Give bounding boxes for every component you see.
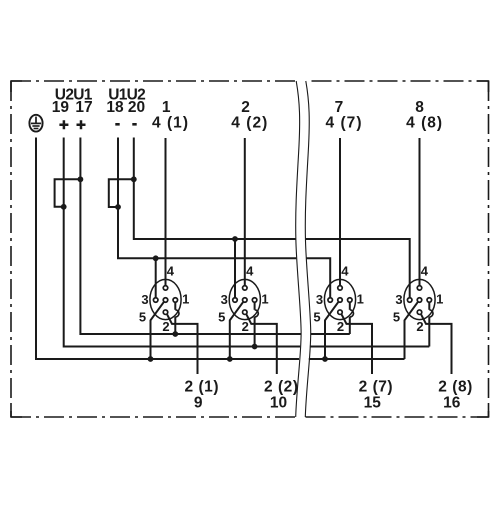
- junction X1 pin 1 on L+ bus A: [172, 331, 178, 337]
- bridge jog between terminals 17 and 19: [55, 179, 81, 207]
- minus sign terminal 20: [132, 123, 136, 126]
- svg-text:4 (8): 4 (8): [406, 114, 442, 131]
- X1 pin 4 circle: [163, 286, 168, 291]
- junction X1 pin 3 on M bus 2: [153, 255, 159, 261]
- svg-text:1: 1: [357, 291, 364, 306]
- X1 pin 2 circle: [163, 310, 168, 315]
- svg-text:4 (2): 4 (2): [231, 114, 267, 131]
- svg-text:20: 20: [128, 99, 145, 116]
- wire signal 4(7) down to X3 pin 4: [339, 138, 341, 288]
- X4 pin 3 circle: [407, 298, 412, 303]
- wire X1 pin 1 down to L+ bus A: [174, 317, 176, 334]
- svg-text:3: 3: [221, 292, 228, 307]
- X2 pin 2 circle: [243, 310, 248, 315]
- svg-text:3: 3: [141, 292, 148, 307]
- plus sign terminal 17: [77, 120, 86, 129]
- bridge jog between terminals 20 and 18: [109, 179, 134, 207]
- junction X2 pin 5 on PE bus: [227, 356, 233, 362]
- junction X2 pin 1 on L+ bus B: [252, 344, 258, 350]
- junction X3 pin 5 on PE bus: [322, 356, 328, 362]
- break line left (page interruption): [296, 81, 301, 417]
- svg-text:15: 15: [364, 395, 382, 412]
- svg-text:19: 19: [52, 99, 70, 116]
- wire PE: ground symbol down and right along PE bus to socket X4 pin 5: [36, 138, 299, 360]
- svg-text:16: 16: [443, 395, 461, 412]
- wire PE bus right of break, up to socket X4 pin 5 corner: [309, 358, 405, 360]
- wire L+ bus A right of break, to socket X3 pin 1: [311, 333, 350, 335]
- plus sign terminal 19: [59, 120, 68, 129]
- svg-text:2: 2: [162, 319, 169, 334]
- X2 pin 5 circle: [243, 298, 248, 303]
- frame: dash-dot border top-right segment: [312, 80, 489, 82]
- svg-text:5: 5: [218, 309, 225, 324]
- X2 pin 1 hop over outline: [255, 310, 259, 317]
- socket X3 outline: [324, 279, 355, 319]
- socket X2 outline: [229, 279, 260, 319]
- svg-text:2: 2: [337, 319, 344, 334]
- break line right (page interruption): [305, 81, 310, 417]
- svg-text:4: 4: [246, 264, 254, 279]
- svg-text:1: 1: [261, 291, 268, 306]
- X3 pin 1 circle: [348, 298, 353, 303]
- X1 pin 1 stub: [174, 302, 176, 310]
- X2 pin 1 stub: [254, 302, 256, 310]
- junction X2 pin 3 on M bus 1: [232, 236, 238, 242]
- X3 pin 2 circle: [338, 310, 343, 315]
- wire signal 4(1) down to X1 pin 4: [165, 138, 167, 288]
- X3 pin 1 hop over outline: [350, 310, 354, 317]
- wire terminal 18 (-) down and right along M bus 2: [118, 138, 296, 259]
- svg-text:2 (1): 2 (1): [185, 378, 219, 395]
- X1 pin 1 hop over outline: [175, 310, 179, 317]
- wire terminal 20 (-) down and right along M bus 1: [134, 138, 296, 240]
- svg-text:18: 18: [106, 99, 124, 116]
- svg-text:10: 10: [270, 395, 287, 412]
- wire X3 pin 1 down to L+ bus A end: [349, 317, 351, 334]
- junction X1 pin 5 on PE bus: [148, 356, 154, 362]
- junction terminal 17 / bridge: [78, 176, 84, 182]
- svg-text:2: 2: [416, 319, 423, 334]
- ground electrode symbol (PE): [29, 115, 42, 132]
- wire M bus 1 right of break, down to socket X4 pin 3: [306, 239, 410, 300]
- svg-text:5: 5: [313, 309, 320, 324]
- X1 pin 3 circle: [153, 298, 158, 303]
- junction terminal 19 / bridge: [61, 204, 67, 210]
- X4 pin 2 circle: [417, 310, 422, 315]
- svg-text:5: 5: [139, 309, 146, 324]
- X4 pin 1 hop over outline: [429, 310, 433, 317]
- wire terminal 17 (+) down and right along L+ bus A: [80, 138, 301, 335]
- wire M bus 2 right of break, down to socket X3 pin 3: [306, 258, 330, 300]
- junction terminal 18 / bridge: [115, 204, 121, 210]
- socket X4 outline: [404, 279, 435, 319]
- X4 pin 1 circle: [427, 298, 432, 303]
- frame: dash-dot border top-left segment: [11, 80, 296, 82]
- svg-text:3: 3: [395, 292, 402, 307]
- X1 pin 2 wire (diagonal, right, down): [167, 314, 197, 374]
- X2 pin 4 circle: [243, 286, 248, 291]
- X3 pin 1 stub: [349, 302, 351, 310]
- X2 pin 5 wire (diagonal to PE bus): [230, 302, 243, 359]
- svg-text:2 (2): 2 (2): [264, 378, 298, 395]
- wire signal 4(2) down to X2 pin 4: [244, 138, 246, 288]
- svg-text:4: 4: [421, 264, 429, 279]
- wire terminal 19 (+) down and right along L+ bus B: [64, 138, 301, 347]
- X2 pin 1 circle: [252, 298, 257, 303]
- svg-text:2: 2: [242, 319, 249, 334]
- X3 pin 3 circle: [328, 298, 333, 303]
- wire X2 pin 3 tap from M bus 1: [234, 239, 236, 300]
- frame: dash-dot border right edge: [488, 81, 490, 417]
- svg-text:4 (1): 4 (1): [152, 114, 188, 131]
- svg-text:2 (8): 2 (8): [438, 378, 472, 395]
- X2 pin 3 circle: [233, 298, 238, 303]
- X3 pin 5 circle: [338, 298, 343, 303]
- X4 pin 5 circle: [417, 298, 422, 303]
- wire X2 pin 1 down to L+ bus B: [254, 317, 256, 347]
- X1 pin 1 circle: [173, 298, 178, 303]
- svg-text:9: 9: [194, 395, 203, 412]
- frame: dash-dot border bottom-right segment: [306, 416, 489, 418]
- X1 pin 5 wire (diagonal to PE bus): [151, 302, 164, 359]
- minus sign terminal 18: [115, 123, 119, 126]
- X3 pin 5 wire (diagonal to PE bus): [325, 302, 338, 359]
- wire X4 pin 1 down to L+ bus B end: [428, 317, 430, 347]
- X3 pin 2 wire (diagonal, right, down): [342, 314, 372, 374]
- frame corner ticks: [11, 81, 489, 417]
- X1 pin 5 circle: [163, 298, 168, 303]
- X3 pin 4 circle: [338, 286, 343, 291]
- svg-text:4 (7): 4 (7): [326, 114, 362, 131]
- wire X1 pin 3 tap from M bus 2: [155, 258, 157, 300]
- svg-text:5: 5: [393, 309, 400, 324]
- X2 pin 2 wire (diagonal, right, down): [246, 314, 276, 374]
- wire signal 4(8) down to X4 pin 4: [419, 138, 421, 288]
- frame: dash-dot border bottom-left segment: [11, 416, 296, 418]
- X4 pin 4 circle: [417, 286, 422, 291]
- svg-text:4: 4: [341, 264, 349, 279]
- svg-text:17: 17: [75, 99, 92, 116]
- svg-text:3: 3: [316, 292, 323, 307]
- svg-text:1: 1: [182, 291, 189, 306]
- svg-text:2 (7): 2 (7): [359, 378, 393, 395]
- X4 pin 5 wire (diagonal to PE bus): [405, 302, 418, 359]
- wire L+ bus B right of break, to socket X4 pin 1: [310, 346, 429, 348]
- X4 pin 2 wire (diagonal, right, down): [421, 314, 451, 374]
- junction terminal 20 / bridge: [131, 176, 137, 182]
- svg-text:1: 1: [436, 291, 443, 306]
- socket X1 outline: [150, 279, 181, 319]
- svg-text:4: 4: [167, 264, 175, 279]
- X4 pin 1 stub: [428, 302, 430, 310]
- frame: dash-dot border left edge: [10, 81, 12, 417]
